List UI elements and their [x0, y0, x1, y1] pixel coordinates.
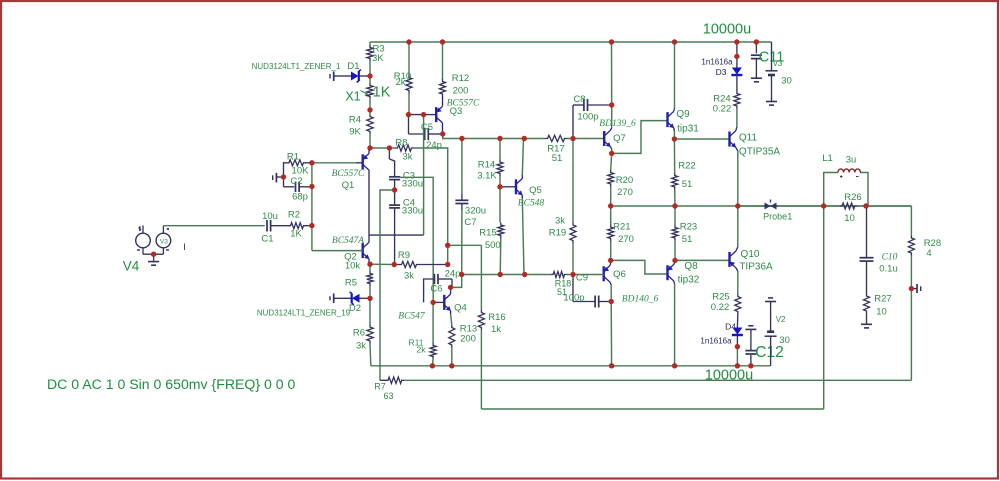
- svg-text:BC557C: BC557C: [332, 169, 365, 179]
- svg-text:R15: R15: [479, 228, 496, 239]
- svg-text:24p: 24p: [426, 140, 442, 151]
- svg-text:Q5: Q5: [529, 185, 542, 196]
- svg-text:30: 30: [779, 335, 790, 346]
- svg-text:QTIP35A: QTIP35A: [739, 147, 780, 158]
- svg-text:V4: V4: [123, 259, 140, 274]
- svg-text:3k: 3k: [402, 152, 412, 163]
- svg-text:L1: L1: [822, 153, 833, 164]
- svg-text:tip31: tip31: [677, 124, 699, 135]
- svg-text:R7: R7: [374, 382, 386, 392]
- svg-text:C10: C10: [882, 253, 898, 263]
- svg-text:10: 10: [844, 213, 855, 224]
- svg-text:BD140_6: BD140_6: [622, 295, 659, 305]
- svg-text:BC547: BC547: [398, 312, 426, 322]
- svg-text:R23: R23: [680, 222, 697, 233]
- svg-text:3k: 3k: [555, 216, 565, 227]
- svg-text:D1: D1: [347, 61, 359, 72]
- svg-text:Q6: Q6: [613, 269, 626, 280]
- svg-text:Q4: Q4: [454, 303, 467, 314]
- svg-text:TIP36A: TIP36A: [739, 262, 773, 273]
- svg-text:V3: V3: [773, 59, 783, 68]
- svg-text:R14: R14: [478, 160, 495, 171]
- svg-text:3u: 3u: [846, 155, 857, 166]
- svg-text:Q3: Q3: [450, 106, 463, 117]
- svg-text:0.1u: 0.1u: [879, 264, 898, 275]
- svg-text:D2: D2: [349, 303, 361, 314]
- svg-text:10000u: 10000u: [703, 22, 751, 38]
- svg-text:51: 51: [682, 234, 693, 245]
- svg-text:9K: 9K: [349, 127, 361, 138]
- svg-text:Probe1: Probe1: [763, 212, 792, 222]
- svg-text:10: 10: [876, 307, 887, 318]
- svg-text:51: 51: [682, 179, 693, 190]
- svg-text:R4: R4: [349, 115, 361, 126]
- svg-text:2k: 2k: [395, 77, 405, 88]
- svg-text:R8: R8: [395, 138, 407, 149]
- svg-text:tip32: tip32: [678, 275, 700, 286]
- svg-text:68p: 68p: [292, 192, 308, 203]
- svg-text:C1: C1: [261, 234, 273, 245]
- svg-text:3k: 3k: [404, 271, 414, 282]
- svg-text:D4: D4: [725, 322, 736, 332]
- svg-text:4: 4: [926, 248, 931, 259]
- svg-text:Q1: Q1: [342, 180, 355, 191]
- svg-text:R22: R22: [678, 161, 695, 172]
- svg-text:Q11: Q11: [739, 133, 758, 144]
- svg-text:330u: 330u: [402, 206, 423, 217]
- svg-text:C7: C7: [464, 217, 476, 228]
- svg-text:R1: R1: [287, 151, 299, 162]
- svg-text:10u: 10u: [262, 211, 278, 222]
- svg-text:R2: R2: [288, 210, 300, 221]
- svg-text:1k: 1k: [491, 324, 501, 335]
- svg-text:R5: R5: [345, 278, 357, 289]
- svg-text:R19: R19: [549, 228, 566, 239]
- svg-text:NUD3124LT1_ZENER_19: NUD3124LT1_ZENER_19: [257, 309, 351, 318]
- svg-text:1K: 1K: [373, 85, 391, 101]
- svg-text:320u: 320u: [465, 206, 486, 217]
- svg-text:0.22: 0.22: [711, 302, 730, 313]
- svg-text:NUD3124LT1_ZENER_1: NUD3124LT1_ZENER_1: [252, 62, 341, 71]
- svg-text:R26: R26: [844, 192, 861, 203]
- svg-text:10000u: 10000u: [705, 368, 753, 384]
- svg-text:R27: R27: [874, 294, 891, 305]
- svg-text:Q8: Q8: [684, 261, 698, 272]
- svg-text:R21: R21: [613, 222, 630, 233]
- svg-text:24p: 24p: [445, 269, 461, 280]
- svg-text:I: I: [183, 242, 186, 252]
- svg-text:BC548: BC548: [518, 198, 545, 208]
- svg-text:3k: 3k: [356, 341, 366, 352]
- svg-text:270: 270: [617, 187, 633, 198]
- svg-text:Q10: Q10: [741, 249, 760, 260]
- svg-text:D3: D3: [716, 67, 727, 77]
- svg-text:V2: V2: [776, 315, 786, 324]
- svg-text:270: 270: [618, 234, 634, 245]
- svg-text:C2: C2: [290, 176, 302, 187]
- svg-text:C8: C8: [573, 94, 585, 105]
- svg-text:1K: 1K: [290, 229, 302, 240]
- svg-text:2k: 2k: [417, 345, 427, 355]
- svg-text:C12: C12: [755, 344, 783, 361]
- svg-text:BC547A: BC547A: [332, 236, 364, 246]
- svg-text:500: 500: [485, 240, 501, 251]
- svg-text:R16: R16: [488, 312, 505, 323]
- svg-text:BD139_6: BD139_6: [599, 119, 636, 129]
- svg-text:1n1616a: 1n1616a: [700, 337, 732, 346]
- svg-text:200: 200: [453, 86, 469, 97]
- svg-text:100p: 100p: [563, 293, 584, 304]
- svg-text:330u: 330u: [402, 179, 423, 190]
- svg-text:3.1K: 3.1K: [477, 171, 497, 182]
- svg-text:Q7: Q7: [613, 133, 626, 144]
- svg-text:R12: R12: [452, 73, 469, 84]
- svg-text:30: 30: [781, 76, 792, 87]
- svg-text:DC 0 AC 1 0 Sin 0 650mv {FREQ}: DC 0 AC 1 0 Sin 0 650mv {FREQ} 0 0 0: [47, 376, 295, 392]
- svg-text:R20: R20: [616, 175, 633, 186]
- svg-text:Q9: Q9: [676, 109, 690, 120]
- svg-text:V3: V3: [160, 239, 168, 246]
- svg-text:51: 51: [552, 153, 563, 164]
- svg-text:C5: C5: [421, 122, 433, 133]
- svg-text:R6: R6: [353, 328, 365, 339]
- svg-text:3K: 3K: [372, 53, 384, 64]
- svg-text:Q2: Q2: [344, 252, 357, 263]
- svg-text:100p: 100p: [577, 112, 598, 123]
- svg-text:1n1616a: 1n1616a: [701, 58, 733, 67]
- svg-text:C6: C6: [430, 284, 442, 295]
- svg-text:0.22: 0.22: [713, 104, 732, 115]
- svg-text:200: 200: [460, 334, 476, 345]
- svg-text:R9: R9: [398, 250, 410, 261]
- svg-text:X1: X1: [345, 90, 360, 104]
- svg-text:63: 63: [383, 391, 393, 401]
